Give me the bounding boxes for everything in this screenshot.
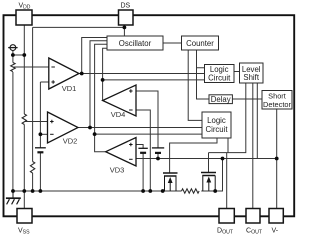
node Q2 drain dot — [213, 189, 217, 193]
node D dot — [93, 132, 97, 136]
wire Logic Circuit 2 to Q1 gate — [170, 138, 217, 173]
svg-text:Shift: Shift — [243, 73, 259, 82]
svg-text:DOUT: DOUT — [217, 228, 234, 236]
wire VD1 plus input from w5 — [40, 81, 48, 83]
svg-text:DS: DS — [121, 3, 131, 10]
ground symbol — [6, 191, 21, 204]
wire node E to Logic Circuit 1 input 3 — [103, 79, 205, 81]
current source I1 — [8, 45, 17, 51]
svg-text:V-: V- — [272, 228, 279, 235]
wire Delay to Short Detector — [232, 98, 262, 100]
svg-text:VD2: VD2 — [63, 137, 78, 146]
wire VD4 output up to node E — [102, 80, 104, 101]
block Logic Circuit 2 — [202, 112, 231, 138]
wire node A to current source — [13, 51, 24, 55]
resistor R2 — [22, 114, 26, 125]
wire Short Detector down to V- node — [276, 109, 278, 159]
IC outline border — [4, 15, 295, 216]
node E dot — [101, 78, 105, 82]
wire V- sense bus from VD3 minus input to V- node — [136, 158, 277, 160]
svg-text:Detector: Detector — [263, 100, 291, 109]
wire w5 vertical with capacitor to ground bus — [39, 82, 41, 191]
wire VD3 plus input to capacitor C2 — [136, 145, 143, 149]
wire R1 tap to VD1 minus input — [14, 66, 49, 68]
wire VD1 output up to oscillator input 1 — [82, 38, 107, 74]
svg-text:VDD: VDD — [19, 3, 31, 11]
wire node D up to oscillator input 3 — [95, 44, 107, 134]
wire node A down through R2 to ground bus and Vss pad — [23, 55, 25, 209]
pad V- — [269, 209, 283, 224]
block Logic Circuit 1 — [205, 65, 235, 83]
wire VDD pad down to node A — [23, 25, 25, 55]
wire DS node B down into oscillator top — [123, 27, 125, 36]
block Counter — [182, 36, 219, 50]
wire bus node G down to Q2 drain — [215, 159, 222, 192]
wire capacitor C2 bottom to ground bus — [142, 153, 144, 191]
pad VSS — [17, 209, 32, 224]
wire bus node C to Logic Circuit 2 input 2 — [90, 127, 202, 129]
op-amp VD4 pointing left — [103, 85, 136, 119]
pad DS — [119, 10, 134, 25]
ground bus dots — [11, 189, 15, 193]
op-amp VD3 pointing left — [106, 138, 136, 175]
svg-text:Circuit: Circuit — [208, 74, 231, 83]
node A dots — [11, 53, 15, 57]
svg-text:COUT: COUT — [246, 228, 263, 236]
node w5 VD2 minus dot — [39, 132, 43, 136]
wire Logic Circuit 1 to Level Shift — [234, 71, 240, 73]
wire R2 tap to VD2 plus input — [25, 121, 48, 123]
wire VD4 plus input to capacitor C3 — [136, 91, 158, 148]
capacitor C3 at VD4 plus — [152, 148, 164, 153]
pad VDD — [16, 10, 32, 25]
svg-text:VSS: VSS — [18, 228, 30, 236]
block Oscillator — [107, 36, 163, 50]
wire V- node down to V- pad — [276, 159, 278, 209]
transistor Q1 — [163, 173, 178, 191]
wire ground bus — [13, 190, 223, 192]
node C dot — [88, 126, 92, 130]
wire capacitor C3 bottom to bus node F — [157, 153, 159, 159]
wire VD2 output to node C — [78, 127, 90, 129]
node G dot bus to Q2 — [221, 157, 225, 161]
svg-text:VD4: VD4 — [111, 110, 126, 119]
pad COUT — [246, 209, 260, 224]
svg-text:Circuit: Circuit — [205, 125, 228, 134]
capacitor C1 on w5 — [35, 148, 46, 153]
wire counter to Logic Circuit 1 input 1 and Delay — [197, 50, 210, 99]
wire counter to Logic Circuit 2 input 1 — [188, 50, 202, 120]
node F dot C3 to bus — [156, 157, 160, 161]
wire oscillator to counter — [163, 42, 182, 44]
op-amp VD2 — [48, 112, 79, 146]
resistor R3 — [30, 162, 34, 173]
resistor R1 — [11, 63, 15, 72]
wire bus node D to Logic Circuit 2 input 3 — [95, 133, 202, 135]
node VD1 out dot — [80, 72, 84, 76]
wire Logic Circuit 2 output 2 down to gate line — [227, 138, 229, 153]
transistor Q2 — [201, 173, 216, 192]
wire node C up to oscillator input 2 — [90, 41, 107, 128]
pad DOUT — [219, 209, 234, 224]
svg-text:VD1: VD1 — [62, 84, 77, 93]
wire Level Shift to V- sense bus — [256, 83, 258, 159]
wire DOUT pad up to gate line — [226, 153, 228, 209]
node V- dot — [275, 157, 279, 161]
wire Level Shift to COUT pad — [252, 83, 254, 209]
wire VD2 minus input from w5 node — [40, 133, 47, 135]
capacitor C2 at VD3 plus — [138, 148, 147, 153]
wire DS pad to node B and left to w4 — [33, 25, 125, 27]
node B dot DS — [123, 26, 127, 30]
wire Level Shift to Q2 gate line — [209, 83, 246, 173]
wire R1 chain down to ground bus — [12, 55, 14, 191]
wire VD3 output left and up to node D — [95, 134, 106, 152]
block Short Detector — [262, 91, 292, 110]
resistor R4 horizontal — [182, 189, 200, 193]
wire VD4 minus input down to ground bus — [136, 110, 150, 191]
wire node E up to oscillator input 4 — [103, 48, 107, 80]
svg-text:Counter: Counter — [186, 39, 214, 48]
block Level Shift — [240, 63, 264, 83]
svg-text:VD3: VD3 — [110, 165, 125, 174]
svg-text:Oscillator: Oscillator — [119, 39, 152, 48]
svg-text:Delay: Delay — [211, 95, 231, 104]
wire w4 from DS line down through R3 to ground bus — [32, 27, 34, 191]
op-amp VD1 — [49, 58, 79, 93]
wire VD1 output to Logic Circuit 1 — [79, 73, 205, 75]
block Delay — [209, 95, 232, 104]
